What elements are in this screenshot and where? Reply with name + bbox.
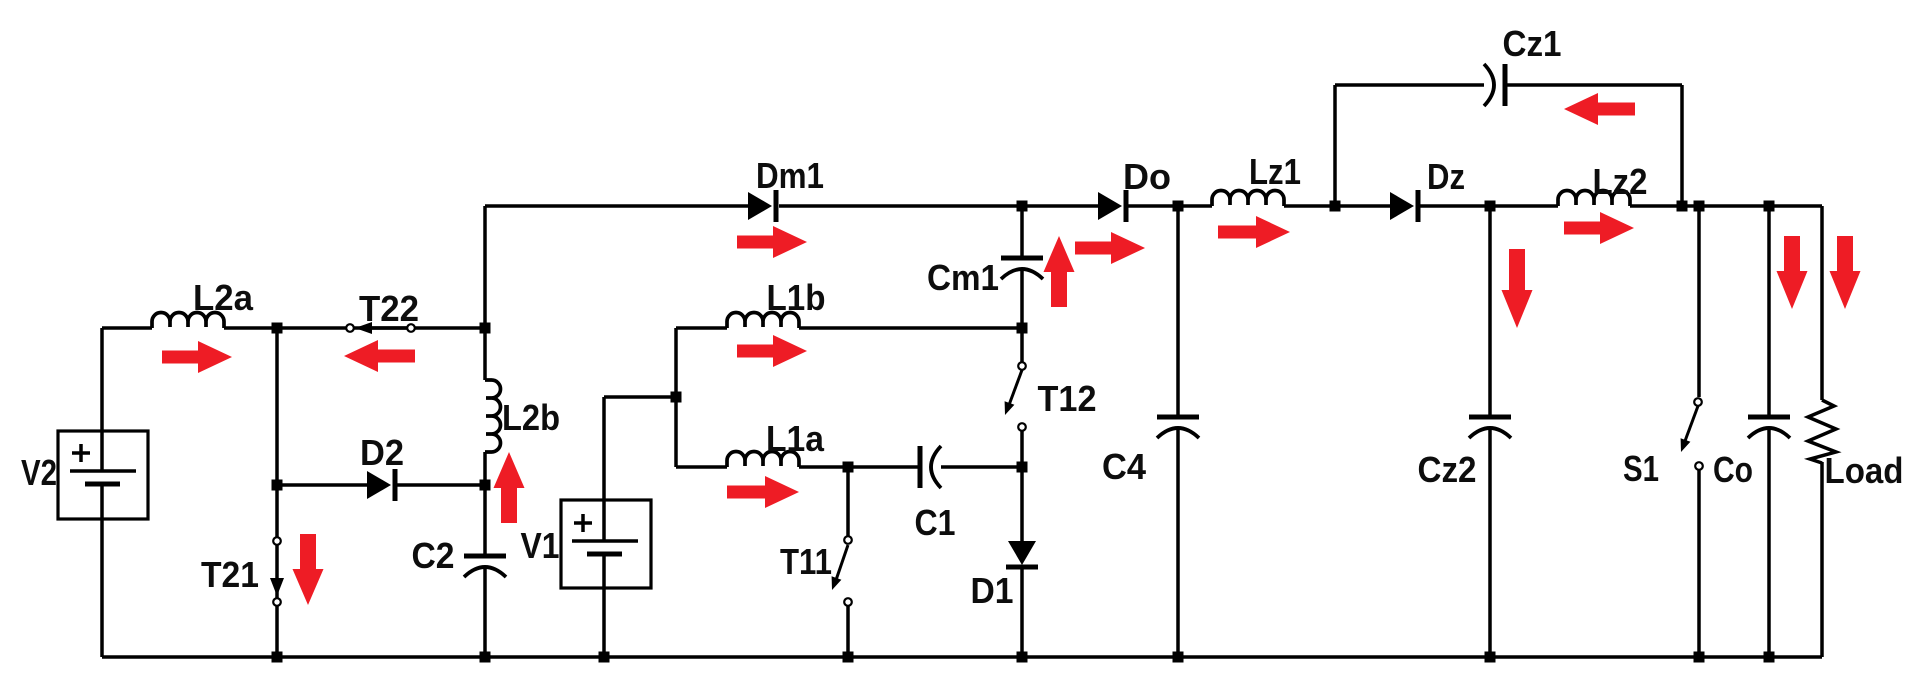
switch T21	[270, 578, 284, 596]
wire bottom rail y=657	[102, 655, 1822, 659]
node junction T12-C1-D1	[1017, 462, 1028, 473]
svg-text:D2: D2	[360, 432, 404, 473]
current arrow output down 1	[1777, 236, 1808, 309]
svg-text:Cm1: Cm1	[927, 257, 999, 298]
svg-text:L2a: L2a	[193, 277, 254, 318]
svg-text:V1: V1	[521, 525, 560, 566]
svg-text:T22: T22	[359, 288, 419, 329]
source V1	[561, 500, 651, 588]
inductor L2a	[152, 313, 224, 329]
wire Cz2 column x=1490	[1488, 206, 1492, 657]
svg-text:C2: C2	[412, 535, 455, 576]
svg-text:L1a: L1a	[766, 418, 825, 459]
svg-text:Cz1: Cz1	[1503, 23, 1562, 64]
node junction rail-Cz2	[1485, 201, 1496, 212]
wire V1 column x=604	[602, 397, 606, 657]
svg-text:Lz2: Lz2	[1593, 161, 1648, 202]
wire L1 left column x=676	[674, 328, 678, 467]
current arrow L1b right	[737, 335, 807, 367]
current arrow Cz2 down	[1502, 249, 1533, 328]
svg-text:Co: Co	[1713, 449, 1753, 490]
resistor Load	[1808, 400, 1836, 463]
svg-text:L2b: L2b	[502, 397, 560, 438]
capacitor Cz2	[1469, 415, 1511, 420]
wire Load column x=1822	[1820, 206, 1824, 657]
wire L1a row y=467	[676, 465, 1022, 469]
capacitor C4	[1157, 415, 1199, 420]
node junction rail-Co	[1764, 201, 1775, 212]
node bottom V1	[599, 652, 610, 663]
wire T21 column x=277	[275, 328, 279, 657]
node bottom T21	[272, 652, 283, 663]
node junction V1 stub	[671, 392, 682, 403]
current arrow output down 2	[1830, 236, 1861, 309]
wire Co column x=1769	[1767, 206, 1771, 657]
node bottom Cz2	[1485, 652, 1496, 663]
svg-text:Dm1: Dm1	[756, 155, 824, 196]
current arrow T22 left	[344, 340, 415, 372]
node junction D2 right	[480, 480, 491, 491]
wire D2 row y=485	[277, 483, 485, 487]
capacitor Cz1	[1484, 64, 1494, 106]
svg-text:Cz2: Cz2	[1418, 449, 1477, 490]
diode Dz	[1390, 192, 1414, 220]
diode D1	[1008, 541, 1036, 565]
capacitor Co	[1748, 415, 1790, 420]
wire Cz1 right branch x=1682	[1680, 85, 1684, 206]
wire S1 column x=1699	[1697, 206, 1701, 657]
svg-text:T11: T11	[780, 541, 832, 582]
wire Cm1/T12/D1 column x=1022	[1020, 206, 1024, 657]
node junction rail-L2b top	[480, 323, 491, 334]
svg-text:L1b: L1b	[767, 277, 826, 318]
node bottom D1	[1017, 652, 1028, 663]
wire T11 column x=848	[846, 467, 850, 657]
switch T11	[836, 545, 848, 580]
inductor L2b	[485, 380, 501, 452]
wire L2b/C2 column x=485	[483, 206, 487, 657]
wire C4 column x=1178	[1176, 206, 1180, 657]
capacitor C1	[918, 446, 923, 488]
node bottom S1	[1694, 652, 1705, 663]
current arrow L1a right	[727, 476, 799, 508]
node junction Cm1-L1b	[1017, 323, 1028, 334]
svg-text:Do: Do	[1123, 156, 1171, 197]
switch T22	[364, 326, 411, 330]
node junction rail-Cz1 right	[1677, 201, 1688, 212]
node bottom T11	[843, 652, 854, 663]
wire left rail top y=328	[102, 326, 485, 330]
svg-text:Load: Load	[1825, 450, 1904, 491]
capacitor Cm1	[1001, 256, 1043, 261]
node junction rail-S1	[1694, 201, 1705, 212]
diode Dm1	[748, 192, 772, 220]
inductor L1a	[727, 452, 799, 468]
switch T12	[1009, 370, 1022, 405]
wire left column x=102	[100, 328, 104, 657]
switch S1	[1685, 406, 1698, 441]
svg-text:T12: T12	[1038, 378, 1097, 419]
svg-text:S1: S1	[1623, 448, 1659, 489]
capacitor C2	[464, 554, 506, 559]
node junction D2 left	[272, 480, 283, 491]
current arrow L2a right	[162, 341, 232, 373]
diode Do	[1098, 192, 1122, 220]
svg-text:C1: C1	[915, 502, 956, 543]
node bottom C2	[480, 652, 491, 663]
wire V1 stub y=397	[604, 395, 676, 399]
node junction L2a-T21	[272, 323, 283, 334]
node junction rail-Cz1 left	[1330, 201, 1341, 212]
inductor Lz2	[1558, 191, 1630, 207]
node junction rail-Cm1	[1017, 201, 1028, 212]
svg-text:D1: D1	[971, 570, 1014, 611]
current arrow T21 down	[293, 534, 324, 605]
svg-text:C4: C4	[1102, 446, 1146, 487]
node bottom C4	[1173, 652, 1184, 663]
current arrow Dm1 right	[737, 226, 807, 258]
current arrow L2b up	[494, 452, 525, 523]
source V2	[58, 431, 148, 519]
current arrow Lz2 right	[1564, 212, 1634, 244]
node junction L1a-T11	[843, 462, 854, 473]
current arrow Cm1 up	[1044, 236, 1075, 307]
wire top main rail y=206	[485, 204, 1822, 208]
inductor L1b	[727, 313, 799, 329]
inductor Lz1	[1212, 191, 1284, 207]
current arrow Cz1 left	[1564, 93, 1635, 125]
svg-text:Lz1: Lz1	[1249, 151, 1301, 192]
node bottom Co	[1764, 652, 1775, 663]
node junction rail-C4	[1173, 201, 1184, 212]
svg-text:Dz: Dz	[1427, 156, 1465, 197]
wire L1b row y=328	[676, 326, 1022, 330]
wire Cz1 left branch x=1335	[1333, 85, 1337, 206]
current arrow Cm1 right	[1075, 232, 1145, 264]
svg-text:T21: T21	[201, 554, 259, 595]
wire Cz1 top rail y=85	[1335, 83, 1682, 87]
current arrow Lz1 right	[1218, 216, 1290, 248]
diode D2	[367, 471, 391, 499]
svg-text:V2: V2	[21, 452, 57, 493]
